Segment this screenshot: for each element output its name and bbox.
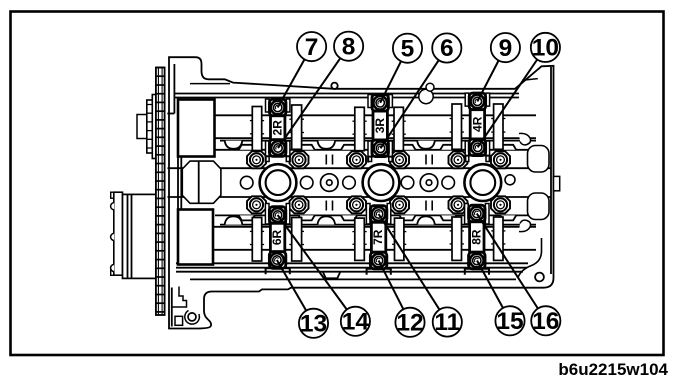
small bore circles row [240,175,515,189]
callout 10 [531,33,560,62]
tick marks pairs [326,155,432,211]
callout 5 [393,34,422,63]
svg-text:9: 9 [499,35,513,62]
leader lines [277,58,538,310]
svg-text:7R: 7R [371,229,385,245]
leader 12 [379,261,404,310]
hex bolt upper-left of cyl3 [449,151,468,168]
leader 15 [477,261,503,309]
callout 9 [491,33,520,62]
svg-text:8R: 8R [469,229,483,245]
leader 5 [380,61,401,103]
camshaft cap 6R [266,207,290,275]
callout circles [297,32,560,338]
leader 11 [379,214,440,310]
bottom rail bump [323,272,341,279]
svg-text:12: 12 [396,310,423,337]
oil hole circle 1 [321,174,339,192]
callout 16 [531,306,560,335]
svg-text:3R: 3R [373,118,387,134]
hex bolt lower-left of cyl2 [347,196,366,213]
callout 14 [341,307,370,336]
camshaft cap 4R [465,93,489,162]
hex bolt upper-left of cyl1 [247,151,266,168]
svg-text:b6u2215w104: b6u2215w104 [558,360,668,379]
svg-text:11: 11 [434,309,460,336]
leader 14 [278,215,347,310]
callout 12 [395,308,424,337]
camshaft edges top [215,114,536,116]
callout 8 [334,32,363,61]
svg-text:4R: 4R [470,116,484,132]
hex bolt upper-right of cyl1 [290,151,309,168]
right end curl lower [519,220,531,232]
leader 10 [478,60,538,148]
top edge small circle A [331,83,337,89]
camshaft pulley actuator lower-left [111,192,158,278]
right end pocket upper [528,146,550,173]
top edge small circle B [419,89,433,103]
journal boss octagon [182,161,221,203]
svg-text:6R: 6R [270,229,284,245]
chain guide foot [167,113,174,115]
right side tab [554,176,560,190]
svg-text:6: 6 [440,35,454,62]
callout 15 [495,306,524,335]
chamfer step line [522,79,538,81]
camshaft cap 7R [367,206,391,275]
leader 6 [381,60,439,148]
camshaft cap 2R [266,99,290,162]
hex bolt lower-right of cyl2 [390,196,409,213]
leader 13 [277,260,306,311]
leader 16 [477,214,538,309]
bottom right inner corner line [518,238,542,278]
spark plug bore cylinder 2 [363,164,400,201]
rail arch cutouts bottom [225,216,243,224]
cam lobe bottom row [252,218,261,262]
rail scallop bumps bottom [239,215,255,220]
oil hole circle 2 [420,174,438,192]
tab inner step notch [172,287,187,308]
camshaft journal block upper [178,100,215,157]
svg-text:14: 14 [342,309,370,336]
flange hex bolts around caps [247,151,510,213]
svg-text:8: 8 [342,33,356,60]
camshaft cap 3R [368,95,392,163]
hex bolt lower-right of cyl1 [290,196,309,213]
callout 11 [433,307,462,336]
right end pocket lower [528,193,550,220]
callout 13 [299,309,328,338]
svg-text:13: 13 [300,311,327,338]
bearing rail top [220,140,536,142]
lobe hatch ticks [250,119,506,245]
callout 6 [432,33,461,62]
bearing rail bottom [215,214,536,216]
timing chain [156,68,165,316]
hex bolt upper-left of cyl2 [347,151,366,168]
rail scallop bumps top [239,145,255,150]
camshaft journal block lower [178,210,213,265]
top rail lines [175,93,519,95]
hex bolt lower-left of cyl1 [247,196,266,213]
right edge inner line [550,67,552,274]
cap shoulder bars [265,93,489,224]
spark plug bore cylinder 1 [260,164,297,201]
leader 9 [477,61,498,102]
leader 8 [278,58,340,148]
bottom rail lines [176,262,528,264]
head inner left verticals [173,64,175,114]
hex bolt upper-right of cyl3 [491,151,510,168]
svg-text:10: 10 [532,35,559,62]
svg-text:2R: 2R [271,120,285,136]
camshaft cap 8R [465,205,489,275]
camshaft edges bottom [213,226,536,228]
hex bolt lower-left of cyl3 [449,196,468,213]
right end curl upper [519,133,531,145]
hex bolt upper-right of cyl2 [390,151,409,168]
central web [168,167,552,169]
svg-text:15: 15 [496,308,523,335]
svg-text:16: 16 [532,308,559,335]
bottom right corner hole [535,273,544,282]
rail arch cutouts top [225,141,243,149]
tab inner small rect [175,316,183,325]
hex bolt lower-right of cyl3 [491,196,510,213]
bottom left tab bolt [188,313,196,321]
callout 7 [297,32,326,61]
top edge inner step line [190,83,230,85]
timing chain sprocket upper [137,95,161,159]
cylinder head cover outline [169,57,554,328]
spark plug bore cylinder 3 [464,164,501,201]
cap bolt swirl marks [275,99,480,262]
svg-text:7: 7 [305,34,319,61]
svg-text:5: 5 [401,35,415,62]
leader 7 [278,59,305,107]
cam lobe top row [252,107,261,151]
